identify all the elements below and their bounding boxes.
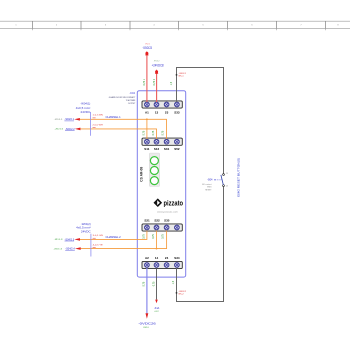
LED window (149, 153, 159, 186)
svg-text:A1: A1 (145, 111, 149, 115)
svg-text:S33: S33 (174, 111, 180, 115)
svg-text:0,75: 0,75 (143, 130, 146, 135)
terminal strip A2 14 24 S34 (142, 256, 182, 269)
svg-text:S34: S34 (174, 256, 180, 260)
module function text (109, 96, 136, 105)
channel 2 wire B (S22+S35) (81, 231, 167, 249)
svg-text:-XD1:3: -XD1:3 (54, 239, 64, 241)
svg-text:/F02.6: /F02.6 (143, 327, 149, 329)
svg-text:OUTPUT: OUTPUT (128, 103, 136, 105)
svg-text:-XD1:4: -XD1:4 (53, 248, 63, 250)
svg-text:0,75: 0,75 (162, 130, 165, 135)
svg-text:2: 2 (56, 25, 58, 27)
svg-text:/F02.2: /F02.2 (145, 43, 150, 45)
svg-text:4: 4 (153, 25, 155, 27)
source arrow ch1 B (55, 128, 81, 131)
target arrow -K1A (154, 300, 160, 313)
channel 2 wire A (S21) (80, 231, 147, 240)
wire number ch1 A (93, 115, 104, 118)
svg-text:CHANNEL 1: CHANNEL 1 (106, 115, 122, 119)
svg-text:A2: A2 (145, 256, 149, 260)
svg-text:TO ACTIVATE: TO ACTIVATE (126, 99, 136, 102)
svg-text:0,75: 0,75 (152, 234, 155, 239)
svg-text:1,5: 1,5 (172, 280, 175, 284)
svg-text:pizzato: pizzato (164, 201, 184, 208)
sheet column numbers (15, 25, 339, 27)
svg-text:GUARD DOOR SW CONTACT: GUARD DOOR SW CONTACT (109, 96, 136, 99)
svg-text:23: 23 (165, 111, 169, 115)
source arrow ch2 B (53, 247, 80, 250)
wire number node bottom (176, 291, 186, 296)
svg-text:4x0,5 mm²: 4x0,5 mm² (76, 107, 91, 110)
wire number ch1 B (93, 125, 104, 128)
emg reset button note (236, 158, 240, 197)
pizzato url (157, 211, 178, 214)
CS AR-08 type label (139, 167, 143, 182)
svg-text:-W04(1): -W04(1) (80, 103, 90, 106)
svg-text:1-0,5 BN: 1-0,5 BN (93, 115, 104, 117)
svg-text:0,75: 0,75 (152, 281, 155, 286)
svg-text:S21: S21 (144, 218, 150, 222)
cable W04 ch1 (76, 103, 91, 136)
svg-text:2-0,5 WH: 2-0,5 WH (93, 125, 104, 127)
wire number node top (176, 73, 186, 78)
device tag -K04 (129, 91, 135, 95)
svg-text:S11: S11 (144, 147, 150, 151)
LED 1 (150, 157, 158, 165)
svg-text:-K04: -K04 (129, 91, 135, 95)
svg-text:0,75 1: 0,75 1 (143, 78, 146, 85)
svg-text:S52: S52 (174, 147, 180, 151)
potential arrow -0VDC26 (138, 313, 156, 329)
svg-text:14: 14 (226, 186, 228, 188)
svg-text:0,75: 0,75 (143, 281, 146, 286)
source arrow ch1 A (54, 118, 80, 121)
svg-text:EMG RESET BUTTON(S): EMG RESET BUTTON(S) (236, 158, 240, 197)
svg-text:24: 24 (165, 256, 169, 260)
LED 2 (150, 167, 158, 175)
svg-text:CHANNEL 2: CHANNEL 2 (106, 235, 122, 239)
svg-text:+24VDC8: +24VDC8 (152, 63, 164, 67)
terminal strip S11 S12 S31 S52 (142, 138, 182, 151)
wire A2 to 0VDC (146, 268, 148, 313)
source arrow ch2 A (54, 238, 80, 241)
svg-text:14: 14 (155, 256, 159, 260)
svg-text:S22: S22 (154, 218, 160, 222)
wire +24VDC8 to 13 (156, 72, 158, 102)
svg-text:/4.2: /4.2 (155, 311, 159, 313)
junction ch1 (146, 118, 148, 120)
wire number ch2 B (93, 245, 104, 248)
sheet column ruler band (0, 21, 350, 30)
svg-text:1,5: 1,5 (170, 81, 173, 85)
svg-text:5: 5 (202, 25, 204, 27)
svg-text:+24VDC20: +24VDC20 (142, 46, 152, 50)
svg-text:-XD1:2: -XD1:2 (55, 129, 65, 131)
svg-text:0,75: 0,75 (143, 234, 146, 239)
channel 1 label (106, 115, 122, 119)
svg-text:7: 7 (300, 25, 302, 27)
cable W04 ch2 (76, 223, 91, 257)
junction ch2 (156, 248, 158, 250)
potential arrow +24VDC20 (142, 43, 152, 55)
svg-text:0,75 2: 0,75 2 (153, 78, 156, 85)
svg-text:13: 13 (226, 173, 228, 175)
svg-text:-XD1:1: -XD1:1 (54, 119, 64, 121)
svg-text:EMG: EMG (207, 187, 212, 189)
svg-text:-S04: -S04 (207, 178, 213, 182)
svg-text:6: 6 (251, 25, 253, 27)
svg-text:0,75: 0,75 (162, 234, 165, 239)
svg-text:4-0,5 YE: 4-0,5 YE (93, 245, 104, 247)
potential arrow +24VDC8 (152, 60, 164, 73)
svg-text:/F03.2: /F03.2 (154, 60, 160, 62)
reset pushbutton S04 (202, 173, 228, 192)
svg-text:1: 1 (15, 25, 17, 27)
svg-text:-W04(2): -W04(2) (81, 223, 91, 226)
terminal strip S21 S22 S35 (142, 218, 182, 231)
svg-text:S31: S31 (164, 147, 170, 151)
wire 14 to K1A (156, 268, 158, 300)
svg-text:S35: S35 (164, 218, 170, 222)
channel 1 wire B (S12) (80, 129, 156, 139)
emg reset loop wire S33-S34 (177, 68, 224, 302)
svg-text:BK-1: BK-1 (179, 76, 184, 78)
svg-text:CS AR-08: CS AR-08 (139, 167, 143, 182)
svg-text:3-0,5 GN: 3-0,5 GN (93, 235, 104, 237)
svg-text:-K1A: -K1A (154, 307, 160, 310)
terminal strip A1 13 23 S33 (142, 101, 182, 115)
svg-text:S12: S12 (154, 147, 160, 151)
wire number ch2 A (93, 235, 104, 238)
wire labels green rotated (143, 78, 175, 286)
pizzato logo (154, 198, 184, 207)
svg-text:www.pizzato.com: www.pizzato.com (157, 211, 178, 214)
svg-text:BK-2: BK-2 (179, 294, 184, 296)
svg-text:3: 3 (105, 25, 107, 27)
svg-text:24VDC: 24VDC (81, 111, 91, 114)
svg-text:-0VDC26: -0VDC26 (138, 322, 156, 326)
channel 2 label (106, 235, 122, 239)
svg-text:0,75: 0,75 (152, 130, 155, 135)
LED 3 (150, 177, 158, 185)
svg-text:RESET: RESET (205, 190, 212, 192)
channel 1 wire A (S11+S31) (80, 119, 167, 139)
svg-text:4x0,5 mm²: 4x0,5 mm² (76, 227, 91, 230)
svg-text:24VDC: 24VDC (81, 230, 91, 233)
svg-text:8: 8 (337, 25, 339, 27)
svg-text:NO contact: NO contact (202, 183, 212, 186)
wire +24VDC20 to A1 (146, 54, 148, 102)
safety relay module K04 body (137, 91, 185, 277)
svg-text:13: 13 (155, 111, 159, 115)
